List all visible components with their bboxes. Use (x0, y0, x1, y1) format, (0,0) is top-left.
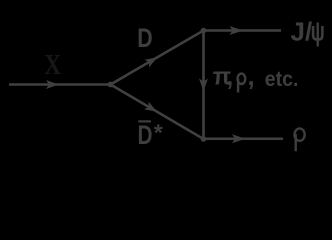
wire exchange arrowhead (199, 79, 208, 92)
wire Dbar* arrowhead (144, 102, 157, 112)
label rho out (295, 128, 305, 140)
node bottom vertex (201, 136, 207, 142)
wire D arrowhead (144, 57, 157, 67)
wire exchange vertical (202, 31, 205, 140)
svg-text:J/: J/ (291, 17, 313, 47)
wire incoming X line (9, 83, 110, 86)
wire J/psi arrowhead (230, 26, 244, 35)
wire rho arrowhead (232, 134, 246, 143)
svg-text:etc.: etc. (265, 67, 299, 91)
wire rho out (204, 138, 284, 141)
svg-text:X: X (44, 50, 61, 81)
wire D diagonal (111, 31, 204, 85)
node left vertex (108, 82, 114, 88)
svg-text:ψ: ψ (311, 16, 325, 47)
wire Dbar* diagonal (111, 85, 204, 140)
wire incoming arrowhead (46, 80, 59, 89)
svg-text:D: D (137, 23, 152, 53)
svg-text:*: * (154, 120, 163, 146)
label rho middle (238, 74, 246, 84)
svg-text:,: , (226, 63, 233, 91)
svg-text:,: , (248, 63, 255, 91)
node top vertex (201, 28, 207, 34)
wire J/psi out (204, 29, 282, 32)
svg-text:D: D (138, 120, 153, 150)
